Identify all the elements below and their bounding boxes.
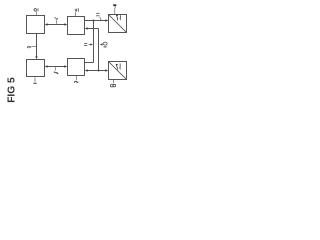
svg-text:FIG 5: FIG 5	[6, 77, 17, 103]
